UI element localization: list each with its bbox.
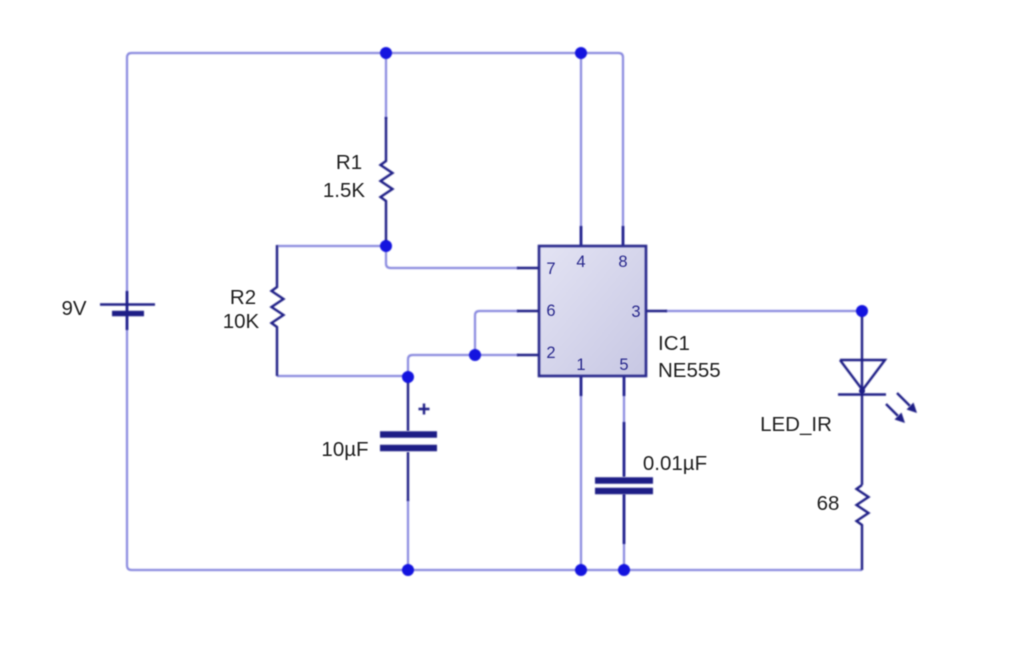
svg-text:3: 3 bbox=[631, 303, 640, 321]
svg-text:10µF: 10µF bbox=[321, 438, 368, 461]
svg-text:IC1: IC1 bbox=[658, 332, 690, 355]
svg-text:R2: R2 bbox=[230, 286, 256, 309]
svg-text:9V: 9V bbox=[61, 297, 86, 320]
svg-text:5: 5 bbox=[619, 356, 628, 374]
svg-text:8: 8 bbox=[618, 253, 627, 271]
svg-text:0.01µF: 0.01µF bbox=[643, 452, 707, 475]
svg-text:6: 6 bbox=[546, 302, 555, 320]
svg-text:NE555: NE555 bbox=[658, 359, 721, 382]
svg-text:LED_IR: LED_IR bbox=[760, 413, 832, 436]
svg-text:1: 1 bbox=[576, 356, 585, 374]
svg-text:10K: 10K bbox=[223, 310, 260, 333]
svg-text:7: 7 bbox=[546, 260, 555, 278]
svg-text:4: 4 bbox=[576, 253, 585, 271]
svg-text:1.5K: 1.5K bbox=[323, 179, 365, 202]
svg-text:2: 2 bbox=[546, 344, 555, 362]
svg-text:68: 68 bbox=[817, 492, 840, 515]
svg-text:R1: R1 bbox=[336, 151, 362, 174]
